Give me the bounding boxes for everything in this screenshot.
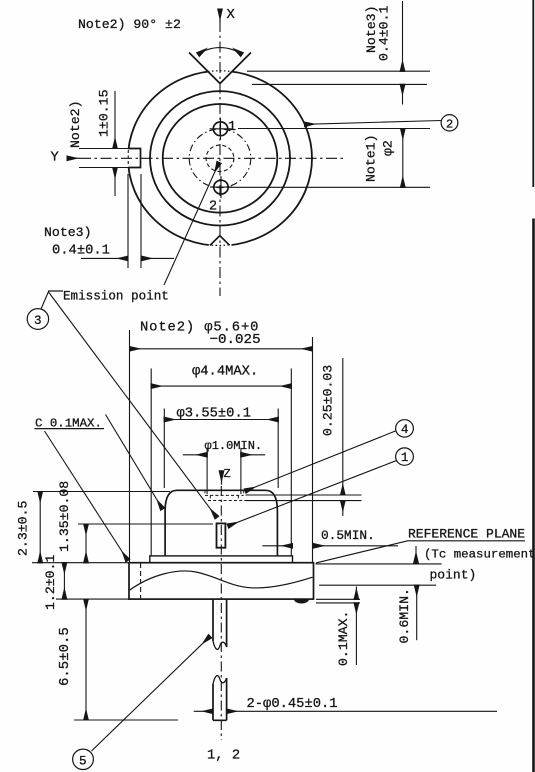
dimension phi3.55 extension lines <box>164 409 278 489</box>
C 0.1MAX underline <box>35 428 105 430</box>
svg-text:0.25±0.03: 0.25±0.03 <box>321 365 336 436</box>
reference plane extension line <box>316 563 442 565</box>
svg-text:2-φ0.45±0.1: 2-φ0.45±0.1 <box>247 697 338 712</box>
top view middle cap ellipse <box>150 91 290 225</box>
circled 3 <box>27 309 48 330</box>
Z axis arrow <box>221 471 223 485</box>
side view center dash-dot line <box>220 486 222 740</box>
dimension phi4.4 extension lines <box>151 369 291 556</box>
svg-text:Emission point: Emission point <box>63 290 169 304</box>
dimension 2.3 extension line <box>33 491 170 493</box>
svg-text:−0.025: −0.025 <box>210 332 261 348</box>
bottom notch dotted theoretical arc <box>208 244 232 247</box>
dimension 0.4±0.1 top notch extension lines <box>247 71 430 84</box>
svg-text:1, 2: 1, 2 <box>207 749 240 764</box>
svg-text:(Tc measurement: (Tc measurement <box>424 548 535 562</box>
Tc point arrow <box>415 546 417 563</box>
svg-text:2: 2 <box>209 200 217 215</box>
dimension phi2 extension lines from pins <box>229 129 430 188</box>
Y axis arrow <box>67 157 80 159</box>
dimension 0.1MAX arrows <box>355 587 357 600</box>
dimension 1.35 extension line <box>78 523 213 525</box>
circled 1 <box>396 448 414 465</box>
reference plane leader <box>316 541 525 563</box>
top view inner window ellipse <box>163 104 278 213</box>
dimension phi5.6 extension lines <box>130 330 313 563</box>
window glass dashed verticals <box>210 495 238 500</box>
top view aperture dashed ellipse <box>206 145 234 171</box>
dimension 0.4±0.1 left notch arrows <box>81 257 128 259</box>
svg-text:C 0.1MAX.: C 0.1MAX. <box>35 417 102 431</box>
circled 5 <box>73 749 94 769</box>
angle arc 90deg with arrows <box>198 48 242 55</box>
dimension phi1.0 extension lines <box>207 448 241 494</box>
dimension 0.6MIN extension line <box>319 584 436 586</box>
pin upper segment <box>213 599 227 647</box>
svg-text:0.5MIN.: 0.5MIN. <box>321 528 375 543</box>
dimension 0.1MAX extension lines <box>316 599 360 603</box>
extension line flange bottom left <box>56 598 129 600</box>
dimension 6.5 arrows <box>85 599 87 720</box>
dimension 0.4±0.1 top notch arrows <box>402 1 404 71</box>
C 0.1MAX leader to flange corner <box>45 431 128 561</box>
dimension 1.35 arrows <box>85 524 87 563</box>
hidden tab dashed line in flange <box>140 563 142 599</box>
page right border upper <box>532 0 534 187</box>
top notch V lines <box>189 53 251 84</box>
dimension phi5.6 arrows <box>130 348 313 350</box>
svg-text:0.4±0.1: 0.4±0.1 <box>377 6 392 61</box>
svg-text:1.35±0.08: 1.35±0.08 <box>57 481 72 552</box>
emission point tick <box>48 290 63 292</box>
pin 1 crosshair <box>210 118 232 140</box>
emission point leader to chip <box>49 292 217 518</box>
svg-text:1: 1 <box>228 120 236 135</box>
dimension phi4.4 arrows <box>151 385 291 387</box>
svg-text:4: 4 <box>401 423 409 437</box>
leader circled 5 <box>92 636 211 751</box>
flange outline side view <box>129 563 314 599</box>
emission point link to circled 3 <box>41 292 49 310</box>
circled 4 <box>396 420 414 437</box>
svg-text:REFERENCE PLANE: REFERENCE PLANE <box>408 527 525 542</box>
top notch white mask <box>191 51 249 85</box>
svg-text:φ4.4MAX.: φ4.4MAX. <box>192 365 258 380</box>
dimension 0.45 arrows <box>194 710 213 712</box>
C 0.1MAX leader to cap shoulder <box>106 415 163 510</box>
dimension 0.4±0.1 left notch extension lines <box>128 174 141 268</box>
pin lower break curve <box>213 676 227 684</box>
window dashed top line <box>205 494 244 496</box>
dimension phi2 arrows <box>402 129 404 188</box>
svg-text:φ2: φ2 <box>381 140 396 156</box>
cap body outline <box>165 490 277 556</box>
chip rectangle <box>217 523 226 547</box>
svg-text:2.3±0.5: 2.3±0.5 <box>16 501 31 556</box>
weld projection bump <box>294 599 309 603</box>
bottom notch white mask <box>209 241 232 251</box>
svg-text:Z: Z <box>224 467 231 481</box>
page right border lower <box>532 219 535 772</box>
dimension 0.6MIN arrow <box>416 585 418 640</box>
svg-text:0.6MIN.: 0.6MIN. <box>397 588 412 643</box>
leader circled 1 <box>228 461 396 526</box>
dimension phi3.55 arrows <box>164 419 278 421</box>
pin 1 circle <box>213 122 227 136</box>
dimension 0.25 extension lines <box>246 495 362 501</box>
svg-text:Note2): Note2) <box>68 101 83 148</box>
cap rim <box>150 556 293 563</box>
top view pin-circle centerline ellipse <box>189 129 251 188</box>
pin lower segment <box>213 678 227 720</box>
dimension phi1.0 arrows <box>183 454 207 456</box>
pin 2 crosshair <box>210 176 232 198</box>
svg-text:1±0.15: 1±0.15 <box>97 89 112 137</box>
svg-text:φ3.55±0.1: φ3.55±0.1 <box>177 407 252 422</box>
window glass dashed bottom <box>208 500 246 502</box>
svg-text:0.4±0.1: 0.4±0.1 <box>52 244 110 259</box>
svg-text:1.2±0.1: 1.2±0.1 <box>43 555 58 610</box>
X axis arrow <box>219 9 221 22</box>
pin upper break curve <box>213 641 227 649</box>
circled 2 <box>441 115 458 131</box>
Y axis dash-dot centerline <box>80 157 344 159</box>
pin 2 circle <box>214 180 228 194</box>
left notch outline <box>128 149 140 168</box>
svg-text:2: 2 <box>446 118 453 132</box>
emission point leader to top view <box>164 163 219 286</box>
dimension 2.3 arrows <box>39 492 41 563</box>
top notch dotted theoretical arc <box>204 71 236 72</box>
window dashed outer verticals <box>205 490 244 495</box>
svg-text:Note2) 90° ±2: Note2) 90° ±2 <box>78 17 181 32</box>
bottom notch V lines <box>210 236 230 246</box>
svg-text:Y: Y <box>51 151 60 166</box>
leader circled 4 <box>245 431 396 491</box>
dimension 0.5MIN arrows <box>262 545 292 547</box>
left notch dashed circle remnant <box>127 150 129 166</box>
svg-text:3: 3 <box>34 314 42 328</box>
svg-text:point): point) <box>430 568 477 583</box>
X axis dash-dot centerline <box>219 21 221 296</box>
extension line flange top left <box>32 562 129 564</box>
dimension 0.25 arrows <box>342 358 344 495</box>
svg-text:6.5±0.5: 6.5±0.5 <box>57 627 73 686</box>
leader to circled 2 <box>305 121 442 125</box>
dimension 1±0.15 arrows <box>114 91 116 149</box>
svg-text:Note1): Note1) <box>364 135 379 182</box>
svg-text:0.1MAX.: 0.1MAX. <box>336 611 351 666</box>
dimension 1±0.15 extension lines <box>79 149 130 168</box>
svg-text:Note3): Note3) <box>44 225 91 240</box>
top view outer flange ellipse <box>128 71 312 246</box>
dimension 6.5 bottom extension line <box>74 719 178 721</box>
dimension 1.2 arrows <box>63 563 65 599</box>
wavy break line in flange <box>129 571 313 591</box>
svg-text:X: X <box>227 8 236 23</box>
svg-text:1: 1 <box>401 451 409 465</box>
left notch white mask <box>127 149 141 167</box>
svg-text:φ1.0MIN.: φ1.0MIN. <box>205 439 263 453</box>
svg-text:5: 5 <box>79 754 87 768</box>
